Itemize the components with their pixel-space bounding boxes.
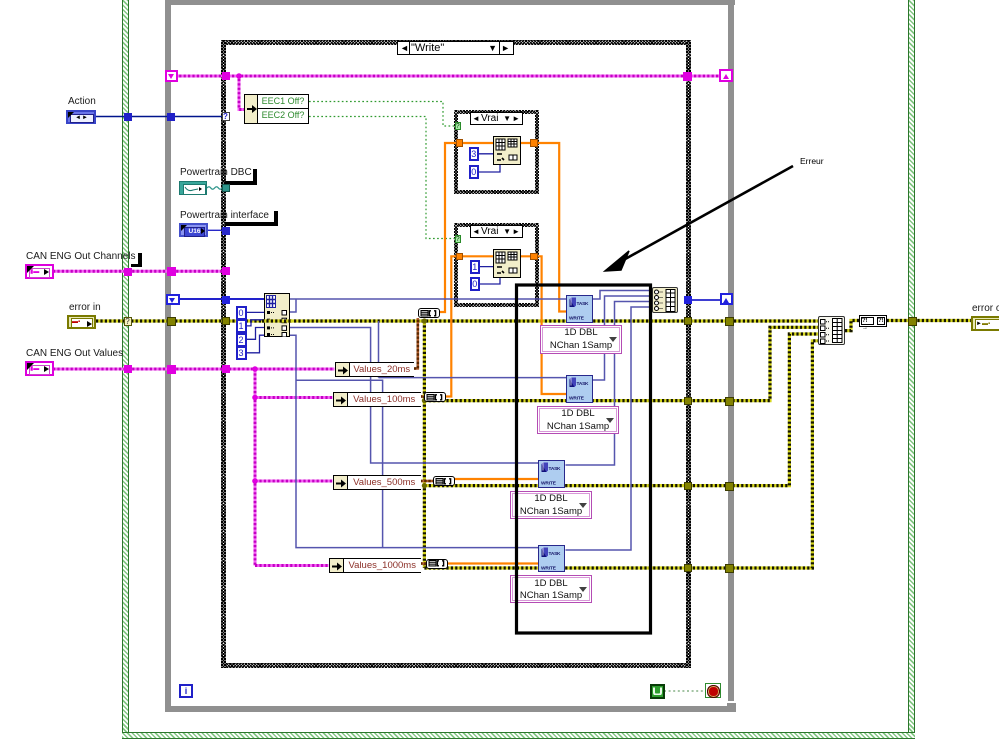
wire: constant 0 to index input bbox=[247, 311, 265, 313]
wire: constant 2 to index input bbox=[247, 328, 265, 340]
wire: error line 3 bbox=[424, 334, 818, 486]
svg-text:Erreur: Erreur bbox=[800, 156, 824, 166]
bracket for channels label bbox=[138, 253, 142, 267]
tunnel: values gray border bbox=[167, 365, 176, 374]
tunnel: U16 case border bbox=[222, 227, 230, 235]
while loop border left bbox=[165, 0, 171, 712]
wire: constant 3 in Vrai1 bbox=[479, 154, 500, 172]
while loop border right bbox=[728, 0, 735, 701]
wire: orange 500ms icon to Task Write 3 bbox=[454, 478, 538, 480]
node: merge errors bbox=[818, 316, 845, 345]
tunnel: case selector terminal bbox=[222, 112, 230, 121]
node: array-to-cluster icon 100ms bbox=[424, 392, 446, 402]
wire: Task Write 3 out to build array bbox=[566, 302, 653, 466]
case selector label "Write" bbox=[397, 41, 514, 55]
tunnel: Vrai2 selector green bbox=[455, 235, 462, 244]
wire: brown cluster Values_100ms to icon bbox=[420, 395, 424, 398]
tunnel: Vrai2 orange left bbox=[456, 253, 464, 261]
tunnel: error2 gray right bbox=[725, 397, 734, 406]
tunnel: error gray right main bbox=[725, 317, 734, 326]
node: local variable Values_20ms bbox=[335, 362, 414, 377]
tunnel: channels case border bbox=[222, 267, 230, 275]
node: polymorphic selector 4 bbox=[510, 575, 592, 603]
node: polymorphic selector 1 bbox=[540, 325, 622, 354]
wire: error line over index node bbox=[262, 319, 292, 322]
node: EEC global holder bbox=[244, 94, 309, 124]
tunnel: pink top case right bbox=[683, 72, 692, 81]
case 2 selector "Vrai" bbox=[470, 225, 523, 238]
control error in bbox=[67, 315, 96, 329]
wire: Task Write 4 out to build array bbox=[566, 307, 653, 550]
node: EEC2 Off? constant bbox=[257, 109, 309, 124]
case 1 selector "Vrai" bbox=[470, 112, 523, 125]
tunnel: DBC case border bbox=[222, 184, 230, 192]
wire: top shift-register string-array (pink) bbox=[166, 75, 727, 78]
control Powertrain DBC bbox=[179, 181, 207, 195]
conditional disable structure right border bbox=[908, 0, 915, 739]
tunnel: error3 gray right bbox=[725, 482, 734, 491]
wire: index row2 to Task Write 2 bbox=[379, 321, 567, 378]
label error in bbox=[69, 302, 101, 313]
tunnel: error gray border bbox=[167, 317, 176, 326]
iteration terminal i bbox=[179, 684, 193, 698]
node: DAQmx Task Write 2 bbox=[566, 375, 593, 403]
label CAN ENG Out Channels bbox=[26, 251, 136, 262]
wire: index row1 jog bbox=[285, 299, 297, 312]
node: local variable Values_500ms bbox=[333, 475, 421, 490]
tunnel: pink top case left bbox=[222, 72, 231, 81]
node: local variable Values_1000ms bbox=[329, 558, 421, 573]
wire: orange stubs inside Vrai case 2 bbox=[461, 255, 530, 257]
node: constant 3 (Vrai1) bbox=[469, 147, 480, 161]
node: index constants 0-3 bbox=[236, 306, 247, 360]
wire: Action enum to case selector bbox=[96, 116, 222, 118]
tunnel: Action on gray border bbox=[167, 113, 175, 121]
node: DAQmx Task Write 1 bbox=[566, 295, 593, 323]
tunnel: error2 case right bbox=[684, 397, 692, 405]
inner case structure 1 (Vrai) border bbox=[454, 110, 539, 114]
while loop corner block bottom-right bbox=[727, 703, 737, 713]
shift register right pink (up arrow) bbox=[719, 69, 733, 82]
conditional disable structure bottom border bbox=[122, 732, 915, 739]
wire: index row3 to Task Write 3 bbox=[285, 328, 539, 464]
wire: index row4 to Task Write 4 bbox=[285, 335, 539, 547]
wire: error out of merge to converter and error out bbox=[845, 321, 972, 331]
wire: violet branch mid bbox=[296, 380, 383, 547]
tunnel: channels gray border bbox=[167, 267, 176, 276]
conditional disable structure left border bbox=[122, 0, 129, 739]
wire: orange case1 right to Task Write 1 bbox=[537, 143, 566, 312]
tunnel: values green border bbox=[124, 365, 132, 373]
node: index array bbox=[264, 293, 291, 337]
node: build array (tasks) bbox=[652, 287, 678, 314]
label Powertrain DBC bbox=[180, 167, 252, 178]
wire: orange case2 right to Task Write 2 bbox=[538, 256, 566, 394]
shift register left pink (down arrow) bbox=[165, 70, 178, 82]
node: local variable Values_100ms bbox=[333, 392, 421, 407]
label error out bbox=[972, 303, 999, 314]
tunnel: Vrai1 orange left bbox=[456, 139, 464, 147]
bracket for Powertrain DBC label bbox=[253, 169, 257, 184]
node: replace array subset (Vrai2) bbox=[493, 249, 521, 278]
tunnel: channels green border bbox=[124, 268, 132, 276]
black annotation rectangle bbox=[517, 285, 651, 633]
wire: task array thick navy into index node bbox=[179, 298, 264, 300]
indicator error out bbox=[971, 316, 999, 331]
tunnel: Action on green border bbox=[124, 113, 132, 121]
wire: EEC2 Off? boolean (green dotted) bbox=[309, 117, 455, 239]
wire: orange stubs inside Vrai case 1 bbox=[461, 142, 530, 144]
node: array-to-cluster icon 500ms bbox=[433, 476, 455, 486]
node: DAQmx Task Write 4 bbox=[538, 545, 565, 573]
node: DAQmx Task Write 3 bbox=[538, 460, 565, 488]
wire: error in main line (yellow/black) bbox=[96, 319, 818, 322]
node: constant 0 (Vrai2) bbox=[470, 277, 481, 291]
wire: constant 1 to index input bbox=[247, 320, 265, 326]
tunnel: Vrai1 selector green bbox=[455, 122, 462, 131]
control Powertrain interface (U16) bbox=[179, 223, 208, 237]
wire: CAN ENG Out Channels (pink) bbox=[53, 270, 225, 273]
wire: constants in Vrai2 bbox=[480, 267, 500, 284]
tunnel: task array case left bbox=[222, 296, 230, 304]
wire: error line 2 bbox=[424, 327, 818, 400]
wire: orange case1 left to 20ms icon bbox=[440, 143, 457, 312]
tunnel: error3 case right bbox=[684, 482, 692, 490]
wire: error line 4 bbox=[424, 341, 818, 568]
wire: brown cluster Values_1000ms to icon bbox=[420, 562, 426, 565]
control Action (enum) bbox=[66, 110, 96, 124]
while loop border bottom bbox=[165, 706, 735, 712]
wire: constant 3 to index input bbox=[247, 335, 265, 353]
wire: index node out to Task Write 1 (violet) bbox=[290, 298, 566, 300]
stop button (red) bbox=[705, 683, 721, 698]
wire: stop terminal to stop button (green dotted) bbox=[664, 690, 705, 692]
inner case structure 2 (Vrai) border bbox=[454, 223, 539, 227]
wire: Powertrain interface U16 bbox=[207, 229, 222, 231]
tunnel: Vrai2 orange right bbox=[530, 253, 538, 261]
wire: Powertrain DBC teal wavy bbox=[207, 187, 222, 190]
bracket for Powertrain interface label bbox=[274, 211, 278, 226]
while loop border top bbox=[165, 0, 735, 5]
label Powertrain interface bbox=[180, 210, 269, 221]
wire: pink branch down to EEC node bbox=[236, 73, 244, 109]
error wire junction dots bbox=[422, 318, 427, 488]
wire: CAN ENG Out Values (pink) bbox=[53, 368, 335, 371]
tunnel: error4 gray right bbox=[725, 564, 734, 573]
control CAN ENG Out Channels (pink array) bbox=[25, 264, 54, 279]
tunnel: values case border bbox=[222, 365, 230, 373]
wire: error vertical branch bbox=[423, 321, 426, 568]
wire: task array out right to shift register bbox=[691, 299, 721, 301]
control CAN ENG Out Values (pink array) bbox=[25, 361, 54, 376]
node: EEC1 Off? constant bbox=[257, 94, 309, 109]
tunnel: error in green border (cond disable ?) bbox=[124, 317, 132, 326]
node: constant 0 (Vrai1) bbox=[469, 165, 480, 179]
loop condition stop terminal bbox=[650, 684, 665, 699]
label Action bbox=[68, 96, 96, 107]
node: constant 1 (Vrai2) bbox=[470, 260, 481, 274]
tunnel: error case border bbox=[222, 317, 230, 325]
tunnel: Vrai1 orange right bbox=[530, 139, 538, 147]
case structure border (Write case) bbox=[221, 40, 691, 45]
wire: Task Write 1 out to build array bbox=[593, 291, 653, 300]
shift register right blue (up arrow) bbox=[720, 293, 733, 305]
node: array-to-cluster icon 1000ms bbox=[426, 559, 448, 569]
wire: EEC1 Off? boolean (green dotted) bbox=[309, 102, 455, 127]
node: error code converter bbox=[859, 315, 887, 327]
wire: orange case2 left to 100ms icon bbox=[446, 256, 456, 396]
annotation arrow to Erreurs bbox=[618, 166, 793, 263]
tunnel: error case right main bbox=[684, 317, 692, 325]
wire: orange 1000ms icon to Task Write 4 bbox=[447, 562, 538, 564]
wire: Task Write 2 out to build array bbox=[593, 296, 653, 380]
node: polymorphic selector 2 bbox=[537, 406, 619, 434]
tunnel: error4 case right bbox=[684, 564, 692, 572]
wire: pink vertical branch to Values locals bbox=[252, 366, 332, 565]
tunnel: task array case right bbox=[684, 296, 692, 304]
wire: brown cluster Values_20ms to icon bbox=[414, 318, 418, 369]
node: replace array subset (Vrai1) bbox=[493, 136, 521, 165]
node: array-to-cluster icon 20ms bbox=[418, 308, 440, 318]
tunnel: error green border right bbox=[908, 317, 917, 326]
shift register left blue (down arrow) bbox=[166, 294, 180, 306]
label CAN ENG Out Values bbox=[26, 348, 123, 359]
wire: brown cluster Values_500ms to icon bbox=[420, 480, 433, 483]
node: polymorphic selector 3 bbox=[510, 491, 592, 519]
